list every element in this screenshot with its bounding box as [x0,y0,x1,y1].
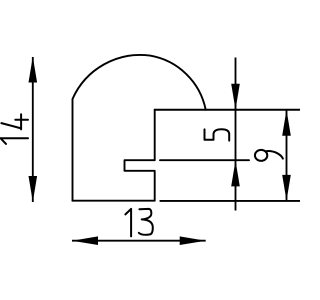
digit 3 [139,209,153,235]
text 13 [125,209,152,237]
bottom extension line [160,200,300,202]
arrow 13 left [72,236,98,245]
arrow 9 bottom (down) [282,175,291,201]
profile outline: left edge + dome arc [73,55,206,201]
arrow 13 right [180,236,206,245]
dimension line 9 [286,110,288,201]
arrow 14 top (up) [29,57,38,83]
arrow 5 lower (up) [231,160,240,186]
digit 4 [1,114,28,129]
profile outline: rabbet leg with notch [73,110,155,201]
digit 1 [1,138,29,144]
text 5 (rotated) [205,129,230,140]
text 9 (rotated) [255,150,283,161]
middle extension line [160,159,249,161]
arrow 5 upper (down) [231,84,240,110]
text 14 (rotated) [1,114,29,144]
top line (outline + extension) [155,109,300,111]
digit 1 [125,209,131,237]
arrow 14 bottom (down) [29,176,38,202]
dimension line 13 [72,240,206,242]
dimension line 5 [235,58,237,211]
dimension line 14 [32,57,34,202]
arrow 9 top (up) [282,110,291,136]
